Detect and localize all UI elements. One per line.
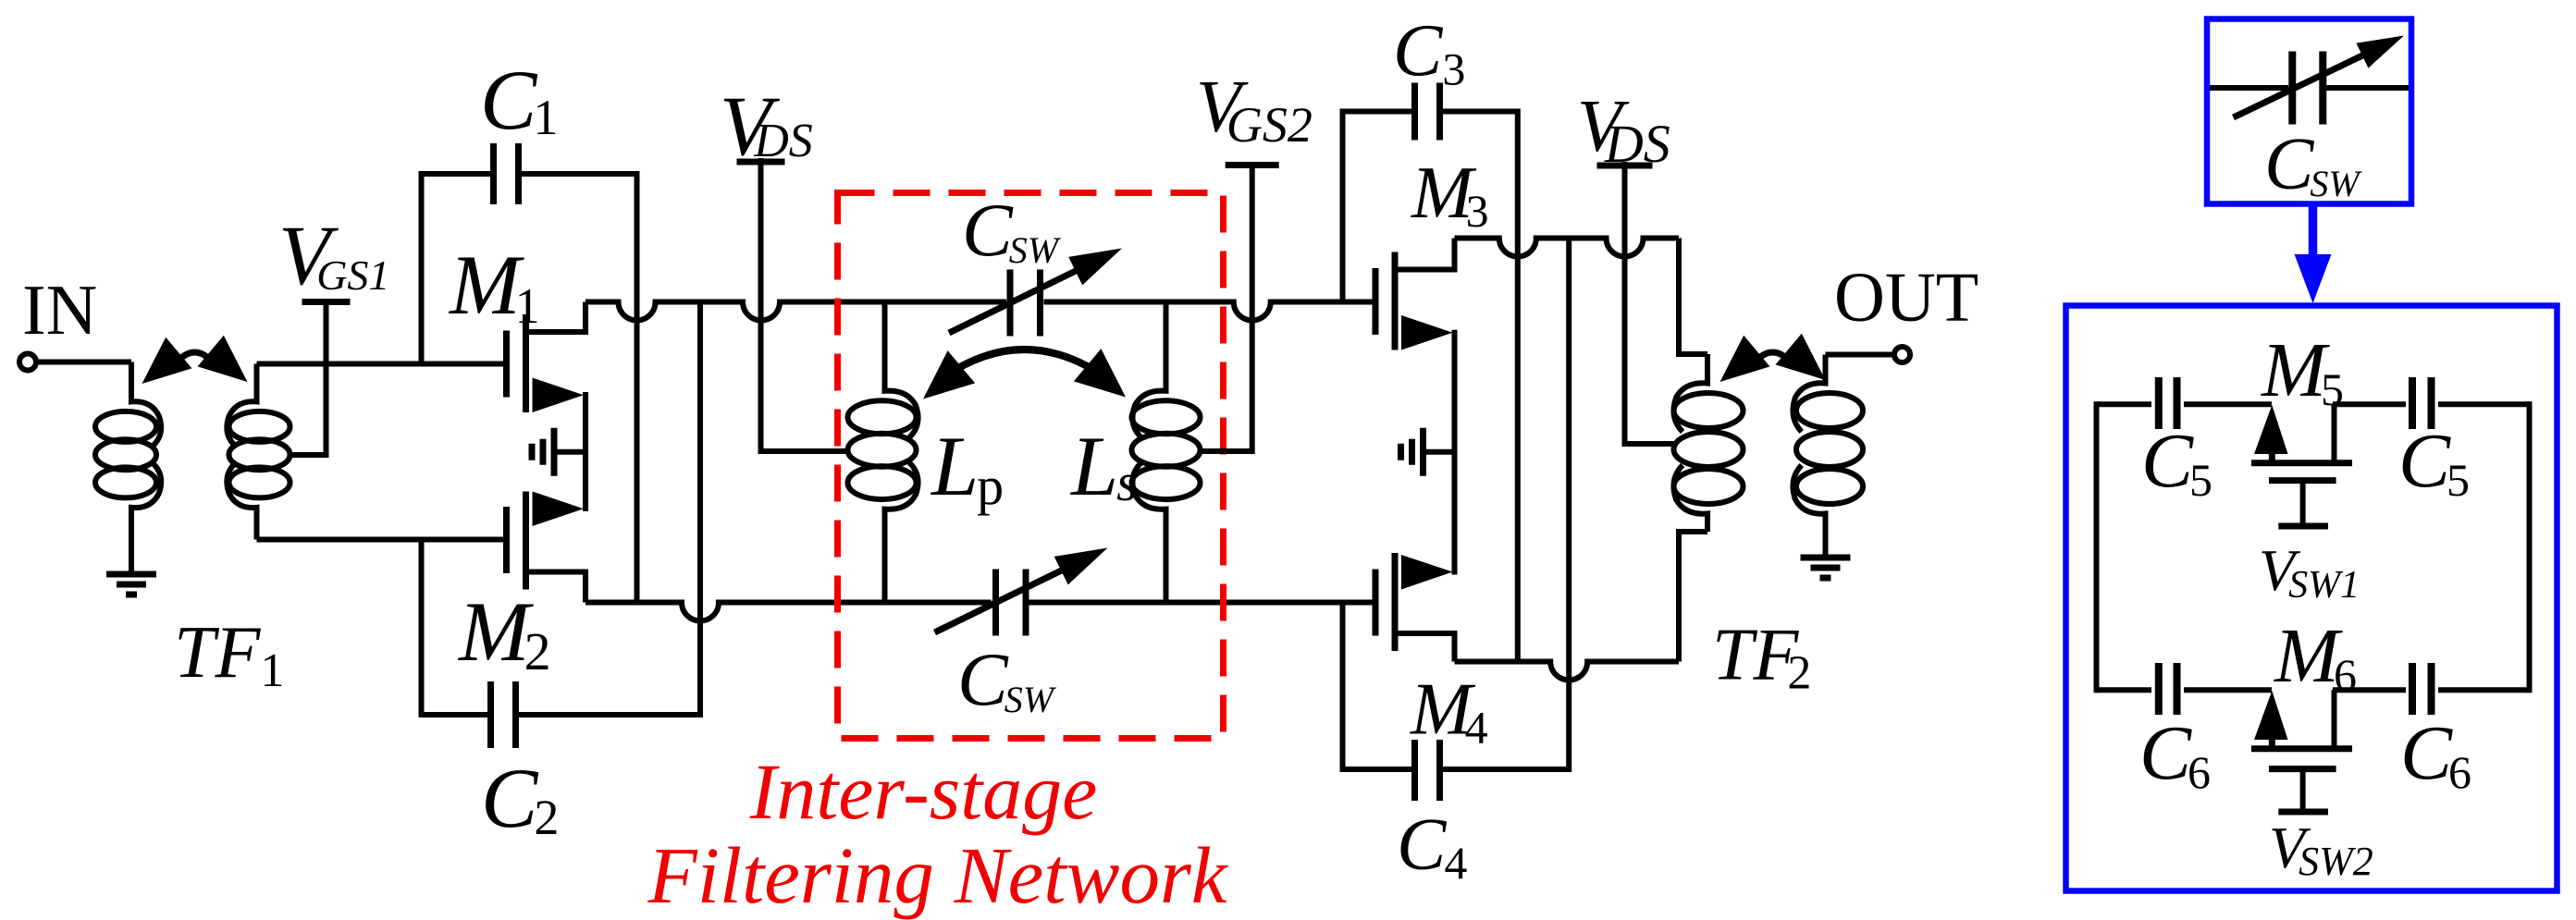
top bus interstage to M3 gate <box>1044 302 1374 321</box>
transistor M4 gate bar <box>1375 553 1395 651</box>
transformer TF2 secondary coil <box>1793 355 1863 556</box>
ground at TF1 primary <box>106 574 156 595</box>
variable capacitor C_SW in blue box <box>2210 36 2409 125</box>
capacitor C2 <box>422 681 701 748</box>
wire TF1 secondary bottom to M2 gate <box>257 537 504 543</box>
shared source wire M3 M4 <box>1452 330 1458 575</box>
wire C2 right to M1 drain bus <box>697 302 703 718</box>
label C2 <box>481 751 559 845</box>
red caption Filtering Network <box>647 830 1228 920</box>
transistor M3 drain wire <box>1395 239 1455 270</box>
label C_SW bottom <box>957 637 1057 721</box>
capacitor C4 <box>1343 740 1570 801</box>
coupling arrows TF1 <box>142 336 248 384</box>
M3 drain bus to TF2 <box>1455 239 1680 257</box>
shared source wire M1 M2 <box>583 392 588 511</box>
variable capacitor C_SW top <box>949 249 1122 337</box>
capacitor C6 left <box>2159 663 2177 715</box>
wire C1 right to M2 drain bus <box>635 171 640 603</box>
wire C4 right to M3 drain bus <box>1566 239 1571 773</box>
wire TF1 secondary top to M1 gate <box>257 362 504 367</box>
red dashed box inter-stage filtering network <box>838 193 1224 739</box>
left rail <box>2094 401 2100 693</box>
right rail <box>2527 401 2533 693</box>
label V_SW2 <box>2269 815 2373 884</box>
bias V_GS2 label <box>1196 67 1313 153</box>
supply V_DS right label <box>1577 86 1670 174</box>
wire V_GS2 to Ls center tap <box>1201 162 1252 451</box>
bottom branch wires <box>2097 687 2530 693</box>
coupling arc Lp Ls <box>923 349 1126 399</box>
label M4 <box>1410 669 1488 754</box>
capacitor C6 right <box>2412 663 2432 715</box>
capacitor C5 right <box>2412 377 2432 429</box>
label M2 <box>457 584 551 681</box>
transformer TF2 primary coil <box>1673 239 1743 662</box>
blue box C_SW symbol <box>2207 19 2411 204</box>
label C4 <box>1397 804 1467 889</box>
label C3 <box>1393 11 1465 95</box>
bias V_GS1 label <box>278 208 389 302</box>
capacitor C3 <box>1343 83 1518 141</box>
ground at TF2 secondary <box>1801 558 1851 578</box>
supply V_DS left T-bar <box>737 159 785 166</box>
wire V_DS right to TF2 primary center tap <box>1625 162 1674 444</box>
bulk ground M1 M2 <box>532 428 585 476</box>
transformer TF1 secondary coil <box>227 364 290 540</box>
inductor Ls <box>1132 302 1201 603</box>
bias V_GS1 T-bar <box>302 299 351 305</box>
label M3 <box>1411 153 1489 237</box>
label C_SW top <box>962 188 1062 272</box>
label TF1 <box>174 612 284 697</box>
bottom bus M2 drain to interstage <box>585 603 992 621</box>
red caption Inter-stage <box>749 747 1098 836</box>
svg-text:OUT: OUT <box>1834 259 1978 337</box>
top bus M1 drain to interstage <box>585 302 1006 321</box>
label M1 <box>448 238 540 334</box>
M4 drain bus to TF2 <box>1455 662 1680 681</box>
wire C4 left to M4 gate <box>1340 603 1346 773</box>
input terminal <box>19 354 36 371</box>
supply V_DS right T-bar <box>1597 163 1653 169</box>
svg-text:Inter-stage: Inter-stage <box>749 747 1098 836</box>
wire IN to TF1 primary <box>36 360 131 365</box>
label C1 <box>480 53 558 147</box>
label V_SW1 <box>2259 537 2360 607</box>
svg-text:Filtering Network: Filtering Network <box>647 830 1228 920</box>
output wire <box>1826 352 1895 358</box>
svg-text:IN: IN <box>22 270 97 350</box>
label TF2 <box>1712 615 1811 700</box>
wire C1 left to M1 gate <box>419 171 425 364</box>
switch transistor M6 <box>2251 690 2352 812</box>
label C_SW in blue box <box>2264 124 2362 205</box>
transformer TF1 primary coil <box>95 362 161 572</box>
input port label IN <box>22 270 97 350</box>
transistor M2 gate bar <box>507 492 526 590</box>
blue arrow <box>2295 204 2332 303</box>
label C6 right <box>2400 710 2471 798</box>
label M5 <box>2261 327 2344 415</box>
inductor Lp <box>848 302 918 603</box>
transistor M4 source arrow <box>1401 555 1453 590</box>
wire V_GS1 to TF1 secondary center tap <box>290 299 327 455</box>
capacitor C5 left <box>2159 377 2177 429</box>
blue box switched capacitor detail <box>2066 306 2558 891</box>
transistor M2 source arrow <box>533 492 585 527</box>
label M6 <box>2274 613 2357 701</box>
wire V_DS left to Lp center tap <box>761 158 848 451</box>
top branch wires <box>2097 401 2530 407</box>
output port label OUT <box>1834 259 1978 337</box>
supply V_DS left label <box>720 79 813 173</box>
transistor M4 drain wire <box>1395 633 1455 662</box>
output terminal <box>1894 347 1910 362</box>
label Ls <box>1069 419 1138 513</box>
label C5 left <box>2141 418 2212 506</box>
coupling arrows TF2 <box>1720 334 1826 382</box>
switch transistor M5 <box>2251 404 2352 526</box>
label C6 left <box>2139 710 2211 798</box>
variable capacitor C_SW bottom <box>935 548 1108 636</box>
transistor M1 drain wire <box>526 302 586 333</box>
wire C3 right to M4 drain bus <box>1515 109 1521 662</box>
transistor M2 drain wire <box>526 572 586 603</box>
bulk ground M3 M4 <box>1401 428 1455 476</box>
bias V_GS2 T-bar <box>1226 162 1279 168</box>
wire C3 left to M3 gate <box>1340 109 1346 302</box>
transistor M3 source arrow <box>1401 315 1453 350</box>
transistor M1 gate bar <box>507 314 526 412</box>
transistor M3 gate bar <box>1375 252 1395 350</box>
capacitor C1 <box>422 143 637 204</box>
svg-text:TF2: TF2 <box>1712 615 1811 700</box>
label C5 right <box>2398 418 2470 506</box>
bottom bus interstage to M4 gate <box>1029 600 1374 606</box>
transistor M1 source arrow <box>533 378 585 413</box>
label Lp <box>930 419 1004 516</box>
wire C2 left to M2 gate <box>419 540 425 718</box>
